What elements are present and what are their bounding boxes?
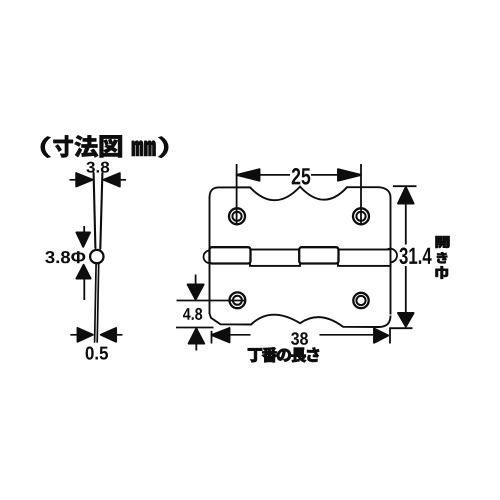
label HABA (width) xyxy=(435,266,447,279)
label dim 3.8 phi (pin diameter) xyxy=(45,251,85,263)
label dim 3.8 (leaf top width) xyxy=(86,162,109,173)
dim 25 extension line left xyxy=(236,164,238,226)
dim 31.4 line lower xyxy=(405,266,407,314)
dim 38 right extension line xyxy=(389,327,391,343)
screw hole bottom-right outer xyxy=(353,293,368,308)
dim 38 line right xyxy=(320,334,375,336)
barrel left pin cap xyxy=(204,250,217,263)
label HIRAKI (open) xyxy=(435,236,449,248)
3.8phi up arrow xyxy=(76,265,90,279)
barrel low segment B xyxy=(250,250,300,266)
side view lower leaf line left xyxy=(95,264,97,342)
0.5 dim left arrow xyxy=(70,328,122,342)
dim 31.4 line upper xyxy=(405,203,407,245)
dim 4.8 hole center line xyxy=(177,300,247,302)
screw hole bottom-left outer xyxy=(230,292,246,308)
caption NO kana xyxy=(277,349,291,362)
dim 25 left arrow xyxy=(237,169,260,181)
barrel right pin cap xyxy=(383,249,397,263)
0.5 dim right arrow xyxy=(101,328,116,342)
3.8phi down arrow xyxy=(76,226,90,300)
heading close paren xyxy=(158,136,168,157)
dim 4.8 up arrow xyxy=(189,328,205,343)
dim 4.8 down arrow xyxy=(195,275,197,286)
side view leaf line left xyxy=(94,173,96,248)
heading kanji ZU xyxy=(100,135,122,157)
label dim 25 (hole spacing) xyxy=(292,168,311,185)
dim 31.4 top extent line xyxy=(393,185,417,187)
screw hole top-right outer xyxy=(353,208,369,224)
barrel knuckle A xyxy=(210,247,251,263)
label dim 38 (hinge length) xyxy=(291,332,308,345)
side view pin circle xyxy=(90,250,103,263)
dim 38 line left xyxy=(229,334,251,336)
barrel low segment D xyxy=(338,250,391,266)
screw hole bottom-right inner xyxy=(356,296,365,305)
hinge body top edge xyxy=(210,187,391,201)
dim 25 line left xyxy=(258,174,290,176)
dim 25 line right xyxy=(311,174,339,176)
dim 25 extension line right xyxy=(360,164,362,226)
side view leaf line right xyxy=(100,173,102,249)
dim 38 left arrow xyxy=(212,328,230,342)
heading kanji HOU xyxy=(74,135,98,157)
dim 38 right arrow xyxy=(374,329,388,343)
label KI kana xyxy=(437,252,447,263)
dim 31.4 bottom extent line xyxy=(391,327,413,329)
screw hole top-left outer xyxy=(229,208,245,224)
barrel knuckle C xyxy=(299,247,338,263)
dim 25 right arrow xyxy=(338,169,361,181)
label dim 4.8 (hole edge distance) xyxy=(183,308,202,320)
caption NAGA xyxy=(291,348,306,363)
heading kanji SUN xyxy=(53,135,73,157)
caption BAN xyxy=(262,347,277,362)
dim 4.8 bottom extent line xyxy=(176,327,214,329)
3.8 dim right arrow xyxy=(104,173,120,186)
heading open paren xyxy=(41,136,51,157)
side view lower leaf line right xyxy=(97,264,99,342)
caption SA kana xyxy=(307,348,319,362)
caption CHOU xyxy=(248,348,262,362)
screw hole top-left inner xyxy=(232,212,241,221)
dim 31.4 down arrow xyxy=(398,313,414,327)
hinge body right edge xyxy=(390,198,392,315)
screw hole bottom-left inner xyxy=(233,296,242,305)
heading mm symbol xyxy=(132,141,156,156)
hinge body bottom edge xyxy=(210,314,391,328)
label dim 31.4 (open width) xyxy=(399,248,431,265)
dim 31.4 up arrow xyxy=(398,187,414,204)
label dim 0.5 (leaf thickness) xyxy=(86,346,108,359)
hinge body left edge xyxy=(209,197,211,314)
screw hole top-right inner xyxy=(356,212,365,221)
3.8 dim left arrow xyxy=(70,173,127,186)
dim 38 left extension line xyxy=(211,331,213,344)
